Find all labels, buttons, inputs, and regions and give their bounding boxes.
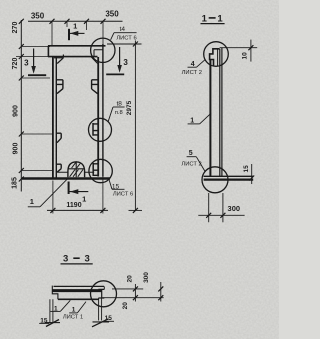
- dimension 2975 right: [107, 41, 142, 213]
- right member bracket 1: [92, 80, 99, 94]
- svg-text:t4: t4: [120, 26, 126, 33]
- left member bracket 2: [56, 133, 61, 143]
- svg-text:ЛИСТ 6: ЛИСТ 6: [116, 36, 136, 42]
- dimension label 350 left: [31, 12, 45, 21]
- section 1-1 member lines: [210, 48, 222, 177]
- dimension label 720: [12, 58, 19, 70]
- dimension line left vertical: [19, 19, 24, 192]
- svg-text:270: 270: [12, 22, 19, 34]
- callout t8 п.8: [108, 100, 125, 121]
- detail circle middle bracket: [89, 118, 112, 141]
- section 3-3 detail circle: [91, 281, 117, 307]
- dimension 300 right of 3-3: [143, 272, 163, 302]
- leader 1 second: [69, 302, 86, 314]
- bottom base plate: [22, 172, 110, 178]
- right member top gusset: [91, 57, 97, 64]
- svg-text:350: 350: [31, 12, 45, 21]
- right member bracket 2 plates: [93, 123, 98, 136]
- svg-text:1: 1: [190, 118, 194, 125]
- callout t4 лист 6: [111, 26, 137, 42]
- svg-text:720: 720: [12, 58, 19, 70]
- extension lines top: [52, 21, 103, 46]
- frame top chord: [48, 46, 106, 57]
- svg-text:20: 20: [122, 302, 129, 310]
- leader 1 first: [50, 300, 70, 312]
- section 1-1 top plate step detail: [210, 49, 220, 66]
- section 3-3 top plate: [52, 286, 104, 299]
- label лист 1: [63, 314, 83, 320]
- section 3-3 title: [61, 254, 93, 265]
- svg-text:900: 900: [13, 105, 20, 117]
- callout 5 лист 2: [181, 150, 205, 172]
- svg-text:3: 3: [123, 58, 128, 67]
- right member bracket 3 plates: [93, 163, 98, 176]
- svg-text:1: 1: [82, 195, 86, 204]
- left member bracket 3: [56, 164, 61, 172]
- section 1-1 base plate: [204, 176, 254, 179]
- dimension label 900 lower: [13, 143, 20, 155]
- section 3-3 right end bracket: [98, 286, 104, 298]
- svg-text:п.8: п.8: [115, 110, 123, 116]
- dimension 15 middle: [92, 298, 114, 327]
- dimension line top horizontal: [28, 19, 123, 24]
- section 1-1 detail circle bottom: [202, 167, 228, 193]
- leader 1 bottom left: [28, 179, 68, 207]
- section 1-1 detail circle top: [204, 42, 229, 67]
- top chord right joint detail: [94, 50, 103, 57]
- section marker 1 top: [69, 22, 85, 41]
- dimension 10: [220, 40, 258, 62]
- svg-text:5: 5: [189, 150, 193, 157]
- dimension label 900 upper: [13, 105, 20, 117]
- extension lines left: [16, 47, 52, 171]
- right member (flat bar): [98, 44, 103, 177]
- svg-text:ЛИСТ 6: ЛИСТ 6: [113, 192, 133, 198]
- svg-text:2975: 2975: [126, 100, 133, 115]
- svg-text:300: 300: [228, 204, 241, 213]
- left member top gusset: [54, 55, 63, 64]
- section marker 3 left: [24, 49, 46, 76]
- lifting loop dome: [68, 161, 85, 177]
- svg-text:t8: t8: [116, 100, 122, 107]
- svg-text:ЛИСТ 2: ЛИСТ 2: [181, 161, 201, 167]
- svg-text:1: 1: [73, 22, 77, 31]
- svg-text:ЛИСТ 1: ЛИСТ 1: [63, 314, 83, 320]
- dimension 1190 bottom: [47, 177, 108, 214]
- dimension label 185: [12, 177, 19, 189]
- left member (flat bar): [53, 57, 56, 178]
- dimension label 350 right: [105, 10, 119, 19]
- section 1-1 title: [201, 13, 225, 24]
- callout 4 лист 2: [182, 60, 205, 76]
- section 3-3 left end step: [52, 286, 58, 300]
- svg-text:185: 185: [12, 177, 19, 189]
- svg-text:900: 900: [13, 143, 20, 155]
- svg-text:ЛИСТ 2: ЛИСТ 2: [182, 70, 202, 76]
- leader 1 section: [188, 113, 211, 124]
- svg-text:3: 3: [63, 254, 68, 265]
- svg-text:20: 20: [126, 275, 133, 283]
- dimension 300 section: [198, 193, 244, 222]
- svg-text:350: 350: [105, 10, 119, 19]
- dimension label 270: [12, 22, 19, 34]
- section marker 1 bottom: [69, 182, 89, 204]
- dimension 15 section: [243, 164, 254, 184]
- detail circle top joint: [91, 38, 115, 62]
- svg-text:1: 1: [202, 13, 208, 24]
- svg-text:1: 1: [30, 197, 34, 206]
- svg-text:1190: 1190: [66, 202, 81, 209]
- left member bracket 1: [56, 80, 63, 94]
- svg-text:3: 3: [85, 254, 90, 265]
- svg-text:15: 15: [243, 165, 250, 173]
- detail circle bottom bracket: [89, 159, 112, 182]
- svg-text:1: 1: [217, 13, 223, 24]
- svg-text:10: 10: [242, 52, 249, 60]
- svg-text:300: 300: [143, 272, 150, 283]
- dimension 15 left: [39, 299, 60, 326]
- callout 15 лист 6: [109, 179, 133, 197]
- dimension 20 20 right of 3-3: [103, 275, 164, 309]
- svg-text:3: 3: [24, 59, 29, 68]
- section marker 3 right: [106, 47, 128, 74]
